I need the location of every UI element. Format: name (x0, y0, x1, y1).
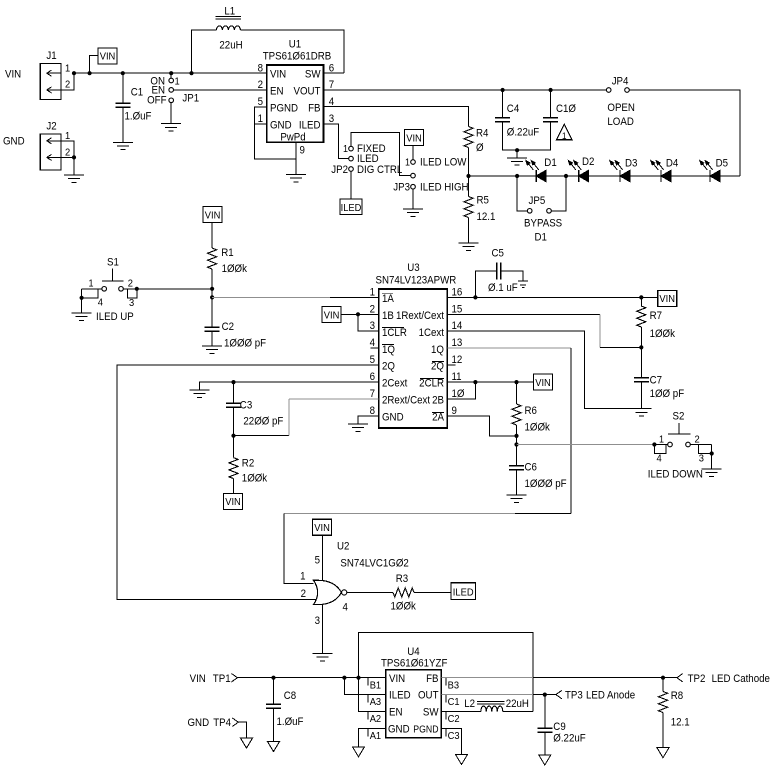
svg-text:1CLR: 1CLR (382, 327, 407, 339)
svg-text:3: 3 (315, 616, 321, 628)
svg-text:9: 9 (300, 145, 306, 157)
svg-text:OPEN: OPEN (607, 103, 635, 115)
svg-text:Ø.1 uF: Ø.1 uF (488, 283, 518, 295)
svg-text:U3: U3 (407, 263, 420, 275)
svg-text:C9: C9 (553, 722, 566, 734)
svg-text:Ø.22uF: Ø.22uF (507, 127, 539, 139)
svg-text:2: 2 (695, 434, 700, 446)
svg-text:R2: R2 (242, 458, 255, 470)
svg-text:U2: U2 (337, 541, 350, 553)
svg-text:B3: B3 (448, 680, 460, 692)
svg-text:VIN: VIN (324, 310, 340, 322)
svg-text:1: 1 (562, 131, 567, 142)
svg-text:1: 1 (175, 76, 181, 88)
svg-text:VIN: VIN (225, 497, 241, 509)
svg-text:C5: C5 (492, 248, 505, 260)
svg-text:3: 3 (370, 321, 376, 333)
svg-text:VIN: VIN (190, 673, 206, 685)
svg-text:1: 1 (65, 131, 71, 143)
svg-text:JP2: JP2 (331, 164, 348, 176)
svg-text:TPS61Ø61DRB: TPS61Ø61DRB (263, 51, 332, 63)
svg-text:22uH: 22uH (219, 40, 242, 52)
svg-text:1Q: 1Q (431, 344, 444, 356)
svg-text:11: 11 (452, 372, 462, 384)
svg-text:PGND: PGND (270, 103, 298, 115)
svg-text:1.ØuF: 1.ØuF (125, 111, 152, 123)
svg-text:S1: S1 (107, 257, 119, 269)
svg-text:R1: R1 (221, 248, 234, 260)
svg-text:B1: B1 (370, 680, 382, 692)
svg-text:L1: L1 (224, 6, 235, 18)
svg-text:4: 4 (657, 453, 663, 465)
svg-text:6: 6 (370, 372, 376, 384)
svg-text:DIG CTRL: DIG CTRL (357, 164, 403, 176)
svg-text:LOAD: LOAD (607, 117, 633, 129)
svg-text:1ØØ pF: 1ØØ pF (650, 389, 685, 401)
svg-text:PGND: PGND (413, 724, 439, 735)
svg-text:D5: D5 (716, 158, 729, 170)
svg-text:1ØØk: 1ØØk (650, 329, 676, 341)
svg-text:D1: D1 (544, 158, 557, 170)
svg-text:TPS61Ø61YZF: TPS61Ø61YZF (381, 658, 447, 670)
svg-text:C3: C3 (240, 400, 253, 412)
svg-text:2: 2 (301, 588, 307, 600)
svg-text:1ØØk: 1ØØk (222, 264, 248, 276)
svg-text:R6: R6 (525, 406, 538, 418)
svg-text:1ØØk: 1ØØk (242, 473, 268, 485)
svg-text:1.ØuF: 1.ØuF (277, 717, 304, 729)
svg-text:12: 12 (452, 355, 463, 367)
svg-text:VIN: VIN (659, 294, 675, 306)
svg-text:FB: FB (426, 673, 439, 685)
svg-text:2: 2 (65, 147, 70, 159)
svg-text:A2: A2 (370, 713, 381, 725)
svg-text:D1: D1 (535, 232, 548, 244)
svg-text:C2: C2 (448, 713, 460, 725)
svg-text:VIN: VIN (406, 133, 422, 145)
svg-text:SN74LVC1GØ2: SN74LVC1GØ2 (340, 558, 409, 570)
svg-text:1Q: 1Q (382, 344, 395, 356)
svg-text:VIN: VIN (535, 377, 551, 389)
svg-text:2Cext: 2Cext (382, 378, 408, 390)
svg-text:2: 2 (258, 80, 264, 92)
svg-text:JP3: JP3 (393, 182, 410, 194)
svg-text:BYPASS: BYPASS (524, 218, 562, 230)
svg-text:22ØØ pF: 22ØØ pF (243, 416, 283, 428)
svg-text:VIN: VIN (100, 51, 116, 63)
svg-text:ILED UP: ILED UP (96, 312, 134, 324)
svg-text:FB: FB (308, 103, 321, 115)
svg-text:1ØØØ pF: 1ØØØ pF (525, 479, 567, 491)
svg-text:TP2: TP2 (688, 673, 706, 685)
svg-text:2B: 2B (432, 395, 444, 407)
svg-text:ILED DOWN: ILED DOWN (648, 469, 703, 481)
svg-text:3: 3 (699, 453, 705, 465)
svg-text:4: 4 (343, 602, 349, 614)
svg-text:9: 9 (452, 406, 458, 418)
svg-text:U1: U1 (289, 39, 302, 51)
svg-text:A1: A1 (370, 730, 382, 742)
svg-text:1: 1 (343, 144, 348, 156)
svg-text:14: 14 (452, 321, 463, 333)
svg-text:GND: GND (388, 724, 410, 736)
svg-text:TP4: TP4 (213, 718, 231, 730)
svg-text:R5: R5 (477, 195, 490, 207)
svg-text:LED Cathode: LED Cathode (712, 673, 771, 685)
svg-text:J2: J2 (46, 121, 57, 133)
svg-text:3: 3 (129, 297, 135, 309)
svg-text:1ØØk: 1ØØk (391, 601, 417, 613)
svg-text:1ØØk: 1ØØk (525, 422, 551, 434)
svg-text:GND: GND (188, 718, 210, 730)
svg-text:12.1: 12.1 (477, 212, 496, 224)
svg-text:1Ø: 1Ø (452, 389, 465, 401)
svg-text:R4: R4 (476, 128, 489, 140)
svg-text:8: 8 (258, 63, 264, 75)
svg-text:1ØØØ pF: 1ØØØ pF (224, 338, 266, 350)
svg-text:1A: 1A (382, 294, 394, 306)
svg-text:PwPd: PwPd (280, 132, 306, 144)
svg-text:L2: L2 (464, 699, 475, 711)
svg-text:GND: GND (382, 412, 404, 424)
svg-text:D3: D3 (625, 158, 638, 170)
svg-text:16: 16 (452, 287, 463, 299)
svg-text:7: 7 (370, 389, 376, 401)
svg-text:ILED HIGH: ILED HIGH (420, 182, 469, 194)
svg-text:ILED LOW: ILED LOW (420, 157, 467, 169)
svg-text:C2: C2 (222, 322, 235, 334)
svg-text:C3: C3 (448, 730, 460, 742)
svg-text:2: 2 (370, 304, 376, 316)
svg-text:2Q: 2Q (431, 361, 444, 373)
svg-text:VIN: VIN (5, 69, 21, 81)
svg-text:LED Anode: LED Anode (586, 690, 635, 702)
svg-text:D2: D2 (582, 157, 595, 169)
svg-text:TP3: TP3 (565, 690, 583, 702)
svg-text:C1: C1 (131, 87, 144, 99)
svg-text:1: 1 (405, 157, 410, 169)
svg-text:U4: U4 (407, 647, 420, 659)
svg-text:1: 1 (88, 278, 93, 290)
svg-text:2CLR: 2CLR (419, 378, 444, 390)
svg-text:ILED: ILED (389, 690, 411, 702)
svg-text:VIN: VIN (314, 523, 330, 535)
svg-text:ILED: ILED (453, 587, 474, 599)
svg-text:C8: C8 (284, 691, 297, 703)
svg-text:C6: C6 (525, 462, 538, 474)
svg-text:C1Ø: C1Ø (556, 104, 576, 116)
svg-text:2Q: 2Q (382, 361, 395, 373)
svg-text:VIN: VIN (389, 673, 405, 685)
svg-text:OUT: OUT (418, 690, 439, 702)
svg-text:C7: C7 (650, 375, 663, 387)
svg-text:2A: 2A (432, 412, 444, 424)
svg-text:VIN: VIN (205, 210, 221, 222)
svg-text:ILED: ILED (341, 202, 362, 214)
svg-text:JP4: JP4 (612, 76, 629, 88)
svg-text:R7: R7 (650, 311, 663, 323)
svg-text:4: 4 (98, 297, 104, 309)
svg-text:VIN: VIN (270, 69, 286, 81)
svg-text:EN: EN (270, 86, 283, 98)
svg-text:15: 15 (452, 304, 463, 316)
svg-text:5: 5 (315, 555, 321, 567)
svg-text:2: 2 (128, 278, 133, 290)
svg-text:C4: C4 (507, 104, 520, 116)
svg-text:GND: GND (3, 136, 25, 148)
svg-text:1B: 1B (382, 310, 394, 322)
svg-text:ILED: ILED (299, 120, 321, 132)
svg-text:8: 8 (370, 406, 376, 418)
svg-text:22uH: 22uH (506, 699, 529, 711)
svg-text:SW: SW (305, 69, 321, 81)
svg-text:D4: D4 (666, 158, 679, 170)
svg-text:R3: R3 (396, 574, 409, 586)
svg-text:JP1: JP1 (182, 93, 199, 105)
svg-text:TP1: TP1 (213, 673, 231, 685)
svg-text:13: 13 (452, 338, 463, 350)
svg-text:EN: EN (389, 707, 402, 719)
svg-text:1: 1 (300, 571, 306, 583)
svg-text:GND: GND (270, 120, 292, 132)
svg-text:Ø: Ø (476, 143, 484, 155)
svg-text:R8: R8 (671, 691, 684, 703)
svg-text:1: 1 (659, 434, 664, 446)
svg-text:J1: J1 (46, 51, 57, 63)
svg-text:A3: A3 (370, 697, 382, 709)
svg-text:OFF: OFF (147, 95, 166, 107)
svg-text:Ø.22uF: Ø.22uF (553, 733, 585, 745)
svg-text:SW: SW (423, 707, 439, 719)
svg-text:2Rext/Cext: 2Rext/Cext (382, 395, 430, 407)
svg-text:5: 5 (370, 355, 376, 367)
svg-text:VOUT: VOUT (294, 86, 322, 98)
svg-text:1Rext/Cext: 1Rext/Cext (396, 310, 444, 322)
svg-text:1Cext: 1Cext (419, 327, 445, 339)
svg-text:1: 1 (65, 63, 71, 75)
svg-text:1: 1 (370, 287, 376, 299)
svg-text:JP5: JP5 (529, 196, 546, 208)
svg-text:2: 2 (65, 79, 70, 91)
svg-text:4: 4 (370, 338, 376, 350)
svg-text:6: 6 (329, 63, 335, 75)
svg-text:S2: S2 (673, 411, 685, 423)
svg-text:SN74LV123APWR: SN74LV123APWR (376, 275, 457, 287)
svg-text:C1: C1 (448, 697, 460, 709)
svg-text:12.1: 12.1 (671, 717, 690, 729)
